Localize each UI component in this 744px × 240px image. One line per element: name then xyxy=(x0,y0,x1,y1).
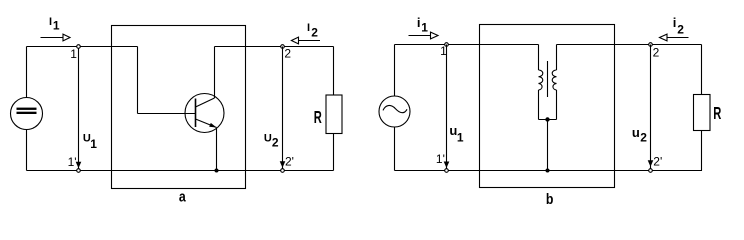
label a xyxy=(179,189,186,205)
wire right rail top a xyxy=(333,47,335,96)
transistor Q1 collector stroke xyxy=(196,98,215,107)
svg-text:1: 1 xyxy=(70,47,77,61)
label R (b) xyxy=(713,103,721,123)
wire source top lead xyxy=(26,47,28,98)
svg-text:2: 2 xyxy=(284,46,291,60)
transistor Q1 base bar xyxy=(195,99,197,128)
svg-text:R: R xyxy=(314,107,322,127)
current arrow I1 line xyxy=(41,37,64,39)
node 1 terminal circle b xyxy=(445,43,449,47)
transformer T1 secondary bottom lead xyxy=(556,90,558,120)
svg-text:1: 1 xyxy=(53,19,60,33)
current arrow I2 head xyxy=(291,37,298,44)
svg-text:2': 2' xyxy=(285,155,294,169)
wire right rail bottom b xyxy=(701,131,703,171)
node 2' terminal circle b xyxy=(649,169,653,173)
svg-text:I: I xyxy=(307,22,310,34)
two-port box a xyxy=(112,26,246,189)
node 2 terminal circle xyxy=(281,45,285,49)
transformer T1 primary top lead xyxy=(538,45,540,71)
svg-text:2: 2 xyxy=(653,45,660,59)
wire top-left (source to box) xyxy=(27,46,138,48)
transformer T1 primary bottom lead xyxy=(538,90,540,120)
current arrow i1 head xyxy=(431,32,439,39)
svg-text:1: 1 xyxy=(421,21,428,35)
wire emitter riser xyxy=(216,128,218,171)
voltage arrow u1 head xyxy=(444,162,450,169)
current arrow i2 line xyxy=(667,37,689,39)
wire top-right rail b xyxy=(557,44,702,46)
wire collector riser xyxy=(214,47,216,99)
node 1' terminal circle b xyxy=(445,169,449,173)
svg-text:R: R xyxy=(713,103,721,123)
svg-text:2: 2 xyxy=(272,136,279,150)
transformer T1 secondary winding xyxy=(552,70,556,90)
transformer T1 primary winding xyxy=(539,70,543,90)
svg-text:2: 2 xyxy=(640,131,647,145)
voltage line u1 xyxy=(446,45,448,171)
wire center tap drop xyxy=(547,120,549,171)
svg-text:1': 1' xyxy=(436,152,445,166)
label b xyxy=(546,191,554,207)
svg-text:1: 1 xyxy=(457,131,464,145)
voltage line u2 xyxy=(650,45,652,171)
wire source top lead b xyxy=(394,45,396,97)
wire bottom rail b xyxy=(395,170,703,172)
svg-text:i: i xyxy=(673,15,677,30)
svg-text:2': 2' xyxy=(653,155,662,169)
DC source V1 equals-bar bottom xyxy=(17,112,37,114)
svg-text:2: 2 xyxy=(311,26,318,40)
transistor Q1 circle xyxy=(185,94,224,133)
svg-text:i: i xyxy=(417,15,421,30)
junction dot emitter-bottom xyxy=(215,169,219,173)
junction dot winding center xyxy=(545,117,549,121)
two-port box b xyxy=(480,25,615,188)
DC source V1 circle xyxy=(11,98,43,130)
voltage arrow u2 head xyxy=(648,160,654,167)
svg-text:U: U xyxy=(264,133,272,145)
voltage line U1 xyxy=(78,47,80,171)
node 1' terminal circle xyxy=(77,169,81,173)
node 2 terminal circle b xyxy=(649,43,653,47)
svg-text:u: u xyxy=(632,125,640,140)
wire right rail bottom a xyxy=(333,134,335,171)
svg-text:1: 1 xyxy=(90,137,97,151)
voltage arrow U2 head xyxy=(280,161,286,168)
node 2' terminal circle xyxy=(281,169,285,173)
voltage arrow U1 head xyxy=(76,162,82,169)
current arrow I2 line xyxy=(299,40,321,42)
node 1 terminal circle xyxy=(77,45,81,49)
AC source V2 circle xyxy=(379,96,410,127)
DC source V1 equals-bar top xyxy=(17,108,37,110)
wire right rail top b xyxy=(701,45,703,95)
transformer T1 core line xyxy=(547,61,549,97)
wire into base (horizontal) xyxy=(138,113,196,115)
junction dot bottom rail b xyxy=(546,169,550,173)
wire bottom rail a xyxy=(27,170,334,172)
wire into base (vertical) xyxy=(137,47,139,114)
wire winding bottom connector xyxy=(539,119,557,121)
wire source bottom lead xyxy=(26,130,28,171)
svg-text:a: a xyxy=(179,189,186,205)
wire top-left (source to transformer) xyxy=(395,44,539,46)
resistor R (b) body xyxy=(694,95,711,131)
resistor R (a) body xyxy=(326,95,342,134)
current arrow I1 head xyxy=(63,34,70,41)
svg-text:2: 2 xyxy=(677,22,684,36)
wire source bottom lead b xyxy=(394,127,396,171)
current arrow i2 head xyxy=(660,34,668,41)
wire top-right rail a xyxy=(215,46,334,48)
voltage line U2 xyxy=(282,47,284,171)
label R (a) xyxy=(314,107,322,127)
svg-text:1': 1' xyxy=(68,155,77,169)
svg-text:I: I xyxy=(49,16,52,28)
AC source V2 sine wave xyxy=(383,105,407,112)
transformer T1 secondary top lead xyxy=(556,45,558,71)
transistor Q1 emitter stroke xyxy=(196,119,217,128)
current arrow i1 line xyxy=(409,35,431,37)
transistor Q1 emitter arrow xyxy=(209,123,216,128)
svg-text:b: b xyxy=(546,191,554,207)
